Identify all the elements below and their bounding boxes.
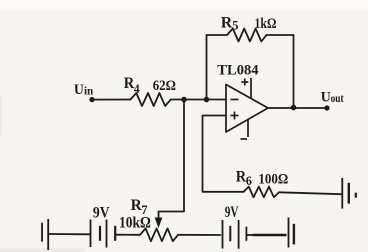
node junction output/feedback	[291, 105, 297, 111]
battery B5 (right side, after R6)	[342, 178, 356, 209]
op-amp positive supply pin	[250, 78, 252, 99]
wire feedback loop right vertical	[267, 35, 294, 108]
op-amp negative supply pin	[247, 120, 249, 138]
op-amp positive supply + sign	[241, 81, 248, 83]
battery B1 (far left end cell)	[42, 219, 48, 250]
svg-text:6: 6	[246, 173, 252, 188]
resistor R4	[131, 93, 171, 106]
battery B3 (right 9V, two cells)	[223, 220, 247, 249]
battery B4 (bottom right end cell)	[289, 218, 294, 248]
svg-text:5: 5	[232, 18, 239, 33]
svg-text:out: out	[331, 93, 344, 105]
op-amp negative supply - sign	[241, 138, 248, 140]
op-amp non-inverting input sign	[231, 115, 239, 117]
resistor R5	[227, 29, 267, 42]
op-amp triangle body	[226, 85, 268, 133]
wire R6 to right battery	[279, 192, 342, 194]
op-amp U1 TL084	[226, 78, 268, 139]
node Uin terminal dot	[89, 97, 94, 102]
wire Uin to R4	[92, 99, 131, 101]
potentiometer wiper arrowhead	[155, 218, 163, 229]
svg-text:100Ω: 100Ω	[258, 171, 288, 187]
potentiometer R7 resistor body	[140, 228, 178, 241]
wire stub right of battery B3	[246, 234, 252, 236]
wire thick segment between bottom batteries	[253, 234, 287, 236]
svg-text:U: U	[321, 90, 331, 106]
wire wiper: junction down, left, into pot arrow	[159, 100, 185, 220]
svg-text:in: in	[84, 84, 93, 98]
svg-text:10kΩ: 10kΩ	[119, 214, 151, 231]
wire bottom-left battery to 9V battery	[49, 233, 90, 235]
node junction feedback tap	[204, 97, 210, 103]
wire feedback loop left vertical	[207, 35, 228, 100]
svg-text:9V: 9V	[93, 205, 110, 222]
svg-text:U: U	[74, 82, 84, 98]
node junction R4/wiper	[181, 97, 187, 103]
wire non-inverting input down to R6	[203, 116, 244, 192]
svg-text:62Ω: 62Ω	[153, 78, 176, 94]
svg-text:R: R	[221, 14, 233, 31]
svg-text:9V: 9V	[225, 204, 239, 221]
wire R7 to right 9V battery	[178, 234, 220, 236]
wire 9V battery to R7	[116, 234, 140, 236]
svg-text:4: 4	[134, 81, 140, 96]
wire op-amp output to Uout	[268, 107, 327, 109]
svg-text:1kΩ: 1kΩ	[255, 16, 277, 32]
wire R4 to op-amp inverting input	[171, 99, 226, 101]
battery B2 (left 9V, two cells)	[91, 220, 116, 248]
resistor R6	[244, 187, 280, 198]
node Uout terminal dot	[324, 105, 329, 110]
svg-text:TL084: TL084	[217, 63, 259, 79]
op-amp inverting input sign	[231, 99, 239, 101]
